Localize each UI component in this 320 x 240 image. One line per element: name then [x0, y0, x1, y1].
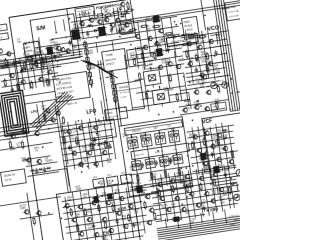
- scatter label: [205, 164, 211, 170]
- wire: [75, 30, 99, 34]
- transistor Q66: [35, 210, 41, 216]
- transistor Q53: [71, 150, 77, 156]
- junction: [157, 150, 159, 152]
- junction: [197, 100, 199, 102]
- wire m44: [202, 168, 209, 215]
- scatter label: [211, 189, 217, 195]
- wire m25: [82, 120, 89, 169]
- transistor Q97: [101, 217, 107, 223]
- ladder mid strip box: [131, 143, 190, 160]
- scatter label: [199, 37, 205, 43]
- junction: [172, 129, 174, 131]
- transistor Q911: [93, 232, 99, 238]
- junction: [101, 195, 103, 197]
- IC U13: [135, 185, 145, 193]
- junction: [178, 227, 180, 229]
- capacitor C4: [86, 31, 90, 37]
- transistor Q65: [23, 209, 29, 215]
- scatter label: [205, 60, 211, 66]
- cv band wire 4: [0, 56, 83, 69]
- scatter label: [216, 33, 222, 39]
- wire: [204, 128, 211, 173]
- wire m57: [174, 51, 181, 100]
- ladder column wire 4: [173, 128, 181, 183]
- pot box VR2: [106, 176, 118, 186]
- junction: [114, 205, 116, 207]
- scatter label: [195, 78, 201, 84]
- ladder strip inner line: [125, 122, 182, 131]
- wire: [2, 79, 59, 88]
- IC U14: [212, 165, 222, 173]
- junction: [218, 33, 220, 35]
- junction: [180, 23, 182, 25]
- note box: [75, 6, 95, 18]
- junction: [163, 196, 165, 198]
- transistor Q71: [5, 51, 11, 57]
- junction: [212, 182, 214, 184]
- wire vertical link 2: [58, 105, 71, 192]
- wire m29: [64, 207, 143, 219]
- junction: [66, 212, 68, 214]
- wire m63: [23, 104, 27, 134]
- junction: [81, 171, 83, 173]
- capacitor C61: [43, 167, 47, 173]
- junction: [217, 139, 219, 141]
- junction: [69, 18, 71, 20]
- corner note box: [225, 0, 251, 21]
- cv band wire 1: [0, 49, 82, 62]
- wire: [228, 126, 235, 170]
- scatter label: [36, 48, 42, 54]
- wire: [60, 129, 113, 137]
- transistor Q85: [222, 146, 228, 152]
- scatter label: [21, 157, 27, 163]
- wire m59: [132, 99, 189, 108]
- junction: [205, 151, 207, 153]
- wire: [80, 191, 88, 240]
- capacitor C90: [92, 223, 96, 229]
- resistor R231: [84, 208, 87, 217]
- junction: [25, 43, 27, 45]
- junction: [103, 23, 105, 25]
- junction: [201, 156, 203, 158]
- wire: [126, 57, 149, 60]
- junction: [199, 196, 201, 198]
- junction: [195, 87, 197, 89]
- junction: [184, 186, 186, 188]
- frame left border: [9, 17, 47, 240]
- jack J3: [236, 169, 243, 176]
- wire: [188, 81, 220, 86]
- wire m60: [106, 77, 113, 78]
- junction: [47, 67, 49, 69]
- scatter label: [107, 158, 113, 164]
- capacitor C52: [93, 137, 97, 143]
- bus stub: [217, 76, 225, 77]
- resistor R111: [16, 82, 19, 91]
- resistor R34: [125, 9, 134, 12]
- junction: [150, 67, 152, 69]
- resistor R11: [29, 61, 32, 70]
- scatter label: [101, 192, 107, 198]
- wire m58: [136, 86, 185, 93]
- ref/value label: [83, 193, 89, 199]
- scatter label: [137, 46, 143, 52]
- junction: [34, 81, 36, 83]
- OCTAVE box: [127, 48, 145, 67]
- transistor Q62: [33, 131, 39, 137]
- junction: [105, 99, 107, 101]
- capacitor C60: [35, 168, 39, 174]
- capacitor C14: [166, 47, 170, 53]
- resistor R172: [32, 216, 35, 225]
- resistor R101: [12, 61, 21, 64]
- scatter label: [101, 235, 107, 240]
- wire: [0, 56, 60, 65]
- junction: [113, 15, 115, 17]
- transistor Q82: [216, 132, 222, 138]
- scatter label: [181, 179, 187, 185]
- resistor R70: [141, 51, 144, 60]
- bundle wire 1: [81, 56, 112, 79]
- vco section border inner: [121, 5, 243, 23]
- diode D10: [29, 169, 35, 173]
- pot knob VR1: [98, 182, 100, 184]
- junction: [210, 183, 212, 185]
- junction: [100, 221, 102, 223]
- junction: [48, 212, 50, 214]
- junction: [192, 119, 194, 121]
- junction: [174, 21, 176, 23]
- ladder resistor R200: [136, 173, 139, 182]
- wire: [145, 65, 152, 66]
- ref/value label: [20, 204, 27, 211]
- junction: [122, 28, 124, 30]
- resistor R102: [25, 57, 34, 60]
- scatter label: [42, 59, 48, 65]
- resistor R131: [169, 73, 172, 82]
- junction: [181, 203, 183, 205]
- ref/value label: [189, 133, 196, 140]
- scatter label: [132, 144, 138, 150]
- resistor R81: [195, 53, 198, 62]
- wire: [137, 180, 145, 233]
- scatter label: [178, 179, 184, 185]
- bus stub: [210, 34, 218, 35]
- wire: [51, 35, 77, 39]
- ladder resistor R202: [164, 169, 167, 178]
- capacitor C34: [39, 57, 45, 61]
- wire vertical pair a: [98, 61, 107, 120]
- resistor R261: [171, 184, 174, 193]
- junction: [108, 153, 110, 155]
- transistor Q32: [32, 61, 38, 67]
- transistor Q1111: [180, 207, 186, 213]
- bus wire 2: [212, 0, 233, 111]
- wire: [185, 31, 193, 83]
- IC U17: [151, 15, 161, 23]
- wire m36: [132, 183, 140, 236]
- svg-text:1M: 1M: [78, 165, 82, 168]
- ref/value label: [114, 189, 121, 196]
- IC U15: [172, 216, 182, 222]
- junction: [97, 144, 99, 146]
- transistor Q84: [209, 144, 215, 150]
- wire: [80, 13, 84, 39]
- transistor Q54: [86, 150, 92, 156]
- resistor R130: [138, 72, 141, 81]
- scatter label: [149, 52, 155, 58]
- transistor Q80: [192, 134, 198, 140]
- scatter label: [223, 134, 229, 140]
- capacitor C2: [68, 39, 72, 45]
- scatter label: [23, 47, 29, 53]
- scatter label: [39, 77, 45, 83]
- wire: [0, 65, 16, 69]
- junction: [175, 24, 177, 26]
- wire m48: [189, 143, 234, 150]
- wire m52: [222, 123, 229, 170]
- wire: [155, 175, 162, 220]
- PORTAMENTO section box: [67, 0, 136, 46]
- wire: [190, 151, 237, 158]
- ladder capacitor C71: [154, 160, 158, 166]
- transistor Q115: [158, 196, 164, 202]
- resistor R80: [185, 50, 188, 59]
- wire m18: [39, 55, 44, 87]
- wire: [56, 95, 62, 98]
- junction: [207, 73, 209, 75]
- ref/value label: [90, 64, 96, 70]
- switch contact chain: [109, 71, 117, 104]
- junction: [78, 120, 80, 122]
- ref/value label: [54, 41, 60, 47]
- ref/value label: [136, 181, 143, 188]
- wire: [187, 125, 234, 132]
- scatter label: [86, 208, 92, 214]
- scatter label: [156, 42, 162, 48]
- transistor Q112: [183, 174, 189, 180]
- scatter label: [214, 64, 220, 70]
- wire tune link 2: [112, 40, 113, 50]
- diagonal cv wire 2: [30, 94, 74, 128]
- junction: [172, 111, 174, 113]
- IC U7 balanced modulator: [149, 85, 174, 108]
- bus stub: [212, 46, 220, 47]
- pot knob VR2: [112, 180, 114, 182]
- transistor Q95: [71, 217, 77, 223]
- wire: [188, 137, 233, 144]
- wire: [72, 20, 131, 29]
- ref/value label: [215, 68, 221, 74]
- bus drop 6: [225, 209, 227, 222]
- transistor Q52: [92, 125, 98, 131]
- wire: [172, 92, 189, 95]
- transistor Q8: [96, 19, 102, 25]
- scatter label: [194, 101, 200, 107]
- resistor R181: [4, 58, 7, 67]
- wire: [207, 28, 215, 80]
- scatter label: [94, 16, 100, 22]
- wire m56: [166, 62, 170, 88]
- ladder column wire 3: [159, 130, 167, 185]
- scatter label: [146, 27, 152, 33]
- wire m46: [228, 164, 235, 208]
- wire: [163, 73, 184, 76]
- vco section border left: [120, 21, 121, 31]
- ref/value label: [145, 16, 155, 23]
- ladder cell box 3: [154, 133, 166, 145]
- resistor R85: [198, 35, 207, 38]
- junction: [91, 131, 93, 133]
- junction: [188, 50, 190, 52]
- vcf note box: [211, 102, 227, 112]
- ref/value label: [141, 189, 148, 196]
- transistor Q44: [205, 90, 211, 96]
- resistor R13: [41, 59, 44, 68]
- junction: [132, 182, 134, 184]
- capacitor C80: [210, 151, 214, 157]
- diagonal cv wire 4: [34, 96, 78, 130]
- transistor Q3: [78, 21, 84, 27]
- junction: [183, 76, 185, 78]
- wire stub to corner box: [222, 8, 230, 9]
- ref/value label: [23, 53, 30, 60]
- diagonal cv wire 1: [28, 93, 72, 127]
- junction: [201, 173, 203, 175]
- scatter label: [148, 60, 154, 66]
- wire left vertical: [27, 193, 39, 240]
- wire: [65, 215, 146, 227]
- wire: [140, 193, 158, 196]
- wire: [216, 124, 223, 171]
- ref/value label: [81, 11, 88, 18]
- resistor R61: [140, 25, 149, 28]
- keyboard bus wire 5: [158, 219, 275, 237]
- junction: [20, 71, 22, 73]
- junction: [231, 151, 233, 153]
- transistor Q20: [186, 41, 192, 47]
- ref/value label: [45, 156, 54, 163]
- wire m4: [93, 11, 94, 19]
- resistor R82: [206, 52, 209, 61]
- IC U5: [154, 48, 164, 57]
- scatter label: [188, 182, 194, 188]
- capacitor C15: [171, 35, 177, 39]
- junction: [209, 47, 211, 49]
- diode D2: [86, 24, 92, 28]
- wire: [143, 205, 161, 208]
- transistor Q10: [134, 34, 140, 40]
- ref/value label: [190, 218, 197, 225]
- wire: [26, 162, 58, 167]
- transistor Q114: [211, 171, 217, 177]
- transistor Q86: [202, 161, 208, 167]
- resistor R86: [206, 64, 209, 73]
- left bus wire 4: [0, 131, 59, 142]
- junction: [187, 155, 189, 157]
- capacitor C97: [202, 205, 206, 211]
- ref/value label: [61, 128, 68, 135]
- transistor Q81: [203, 130, 209, 136]
- transistor Q1: [55, 45, 61, 51]
- ref/value label: [165, 58, 171, 64]
- junction: [170, 65, 172, 67]
- LFO coil nested rectangles: [0, 90, 29, 136]
- resistor R32: [111, 11, 120, 14]
- transistor Q50: [65, 129, 71, 135]
- junction: [174, 48, 176, 50]
- IC U1: [45, 46, 55, 55]
- ladder column wire 2: [145, 132, 153, 187]
- scatter label: [22, 133, 28, 139]
- ref/value label: [224, 166, 231, 173]
- ref/value label: [83, 157, 90, 164]
- ref/value label: [72, 44, 78, 50]
- wire: [139, 195, 140, 202]
- wire: [131, 48, 182, 56]
- ref/value label: [133, 208, 140, 215]
- bus drop 1: [165, 218, 166, 227]
- ladder resistor R201: [150, 171, 153, 180]
- jack J1: [210, 82, 217, 89]
- capacitor C1: [53, 54, 57, 60]
- junction: [186, 196, 188, 198]
- junction: [131, 136, 133, 138]
- capacitor C98: [230, 182, 236, 186]
- ref/value label: [122, 26, 128, 32]
- modulation note box: [53, 71, 91, 102]
- scatter label: [75, 140, 81, 146]
- wire m14: [216, 33, 218, 45]
- junction: [119, 36, 121, 38]
- resistor R262: [185, 184, 188, 193]
- wire m27: [110, 120, 116, 160]
- wire m62: [96, 64, 104, 65]
- junction: [231, 92, 233, 94]
- transistor Q77: [49, 117, 55, 123]
- transistor Q87: [215, 157, 221, 163]
- scatter label: [151, 52, 157, 58]
- wire chain to ladder 2: [118, 103, 121, 126]
- scatter label: [219, 144, 225, 150]
- wire m7: [130, 42, 179, 49]
- ladder bottom rail 2: [131, 180, 193, 189]
- junction: [98, 119, 100, 121]
- wire: [187, 149, 189, 151]
- capacitor C25: [194, 67, 198, 73]
- terminal box T1: [0, 24, 7, 31]
- IC U2: [23, 40, 40, 58]
- ref/value label: [142, 65, 153, 72]
- keyboard bus wire 1: [157, 211, 274, 229]
- junction: [57, 60, 59, 62]
- wire: [88, 12, 89, 20]
- ladder cell box 1: [127, 137, 139, 149]
- wire: [63, 202, 142, 214]
- resistor R52: [133, 58, 136, 67]
- transistor Q56: [77, 161, 83, 167]
- transistor Q5: [103, 17, 109, 23]
- scatter label: [159, 38, 165, 44]
- wire: [81, 31, 132, 39]
- wire m8: [145, 21, 150, 57]
- transistor Q94: [118, 196, 124, 202]
- scatter label: [89, 141, 96, 148]
- wire: [8, 60, 13, 92]
- transistor Q76: [54, 110, 60, 116]
- wire: [151, 179, 236, 192]
